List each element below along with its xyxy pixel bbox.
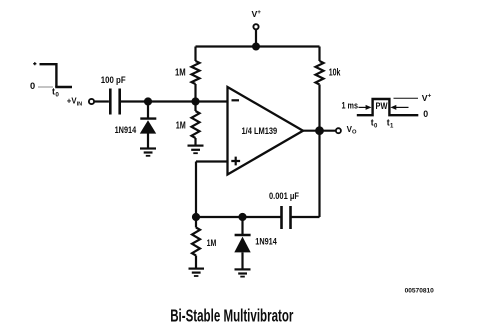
svg-text:1M: 1M: [207, 238, 217, 248]
svg-text:Bi-Stable Multivibrator: Bi-Stable Multivibrator: [170, 306, 293, 326]
bottom rail junction left: [192, 213, 200, 221]
svg-text:PW: PW: [376, 101, 388, 111]
resistor R3 1M upper lead: [195, 217, 197, 228]
svg-text:10k: 10k: [329, 67, 341, 78]
wire: plus input left segment: [196, 160, 228, 162]
1 ms arrow line: [359, 106, 367, 108]
PW right arrowhead: [390, 105, 396, 110]
diode D2 1N914 top lead: [241, 217, 243, 234]
input terminal +VIN: [89, 99, 94, 104]
diode D1 cathode bar: [140, 117, 156, 119]
wire: op-amp output to VO terminal: [303, 130, 336, 132]
input step waveform high segment: [40, 63, 57, 65]
bottom rail junction at D2: [238, 213, 246, 221]
diode D1 bottom lead: [147, 134, 149, 149]
wire: capacitor C1 to node A: [121, 100, 148, 102]
PW right arrow line: [395, 106, 409, 108]
resistor R3 1M lower lead: [195, 256, 197, 269]
bottom rail wire left of capacitor: [196, 216, 282, 218]
svg-text:+VIN: +VIN: [67, 96, 82, 107]
svg-text:1N914: 1N914: [255, 236, 277, 247]
node: top rail junction: [252, 43, 260, 51]
VO terminal: [336, 128, 341, 133]
diode D1 1N914 top lead: [147, 102, 149, 118]
ground below D1: [140, 147, 156, 149]
resistor R1 1M body: [192, 61, 200, 84]
ground below D2: [235, 268, 251, 270]
svg-text:t0: t0: [52, 86, 59, 98]
diode D2 cathode bar: [235, 234, 251, 236]
svg-text:100 pF: 100 pF: [101, 75, 126, 85]
resistor R2 1M upper lead: [194, 102, 196, 112]
V+ stem wire: [255, 30, 257, 47]
svg-text:0: 0: [423, 109, 428, 119]
capacitor C1 100 pF right plate: [118, 89, 121, 115]
resistor R1 1M lower lead: [194, 84, 196, 102]
capacitor C2 0.001uF left plate: [280, 206, 283, 229]
wire: 10k to output node and down to bottom rail: [318, 85, 320, 218]
resistor R4 10k upper lead: [318, 47, 320, 62]
resistor R2 1M lower lead: [194, 138, 196, 145]
svg-text:V+: V+: [422, 93, 432, 103]
svg-text:1/4 LM139: 1/4 LM139: [242, 126, 278, 136]
svg-text:1N914: 1N914: [115, 124, 137, 135]
top rail wire: [196, 45, 320, 47]
svg-text:1M: 1M: [175, 68, 186, 79]
capacitor C2 0.001uF right plate: [289, 206, 292, 229]
svg-text:V+: V+: [252, 9, 262, 19]
svg-text:0.001 μF: 0.001 μF: [269, 191, 299, 201]
svg-text:00570810: 00570810: [405, 288, 435, 295]
wire: input terminal to capacitor C1: [95, 100, 109, 102]
input step waveform falling edge: [55, 63, 57, 87]
output node junction: [315, 126, 324, 135]
resistor R4 10k body: [316, 61, 324, 85]
svg-text:t1: t1: [387, 117, 394, 129]
svg-text:0: 0: [30, 81, 35, 91]
input waveform zero baseline (thin): [38, 86, 53, 88]
svg-text:1M: 1M: [176, 121, 186, 132]
ground below R2: [188, 145, 204, 147]
wire: node A to op-amp inverting input: [148, 100, 228, 102]
wire: plus input down to bottom rail: [195, 162, 197, 218]
node A junction: [144, 97, 152, 105]
diode D2 anode triangle: [234, 237, 250, 253]
V+ terminal: [253, 24, 258, 29]
svg-text:VO: VO: [347, 125, 357, 136]
label input plus mark: [33, 62, 36, 65]
capacitor C1 100 pF left plate: [109, 89, 112, 115]
diode D2 bottom lead: [241, 252, 243, 269]
node B junction: [191, 97, 199, 105]
output waveform V+ reference line (thin): [394, 97, 419, 99]
resistor R2 1M body: [192, 111, 200, 138]
op-amp U1 1/4 LM139 triangle: [228, 87, 304, 175]
diode D1 anode triangle: [140, 120, 156, 133]
resistor R3 1M body: [192, 228, 200, 256]
op-amp minus sign: [232, 99, 240, 101]
svg-text:1 ms: 1 ms: [342, 101, 359, 111]
output pulse waveform: [357, 99, 419, 115]
svg-text:t0: t0: [371, 117, 378, 129]
resistor R1 1M upper lead: [194, 47, 196, 62]
ground below R3: [189, 268, 205, 270]
1 ms arrowhead: [366, 105, 372, 110]
bottom rail wire right of capacitor: [291, 216, 320, 218]
input step waveform low segment: [55, 86, 72, 88]
op-amp plus sign: [231, 157, 240, 166]
